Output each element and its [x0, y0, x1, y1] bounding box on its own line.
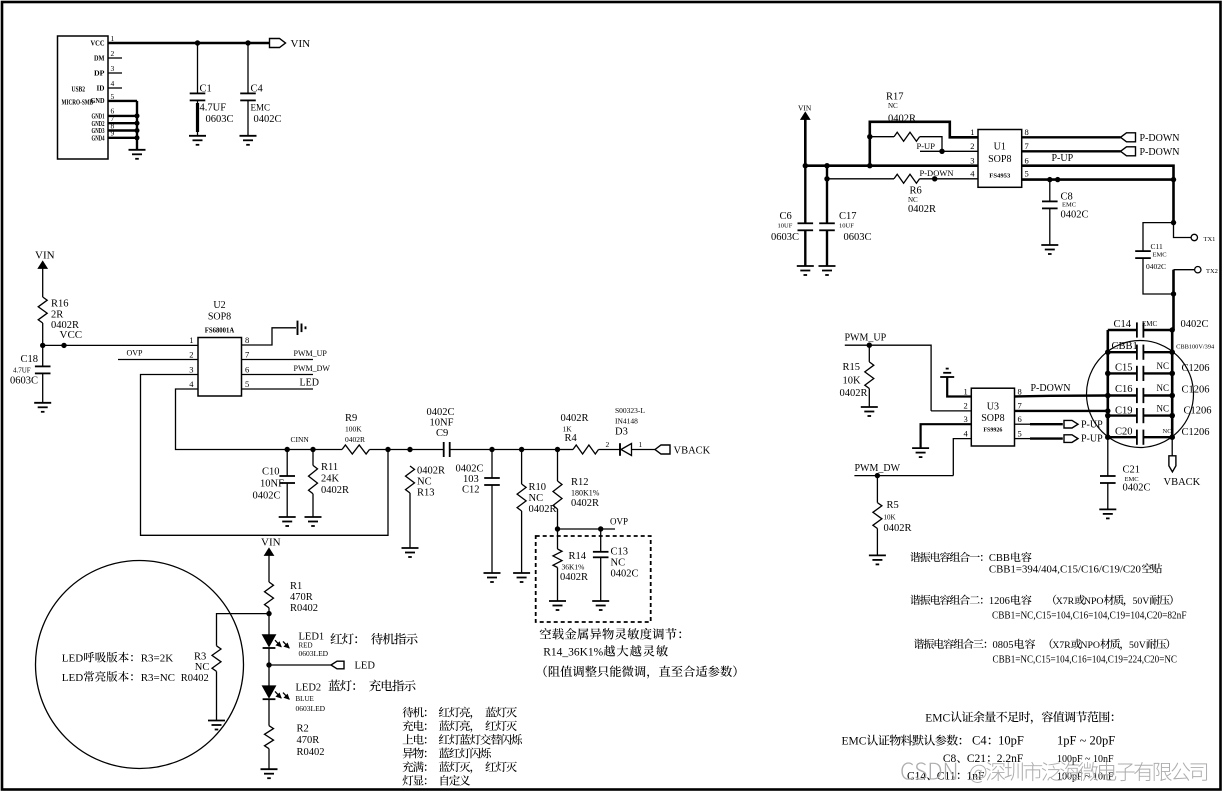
op-amp U2 SOP8 FS68001A body	[198, 338, 242, 397]
svg-text:U3: U3	[987, 401, 999, 412]
wire U2 pin8 to ground	[242, 328, 297, 345]
svg-text:R15: R15	[843, 362, 861, 373]
node R12/R4 junction	[555, 447, 560, 452]
svg-text:470R: 470R	[297, 735, 320, 746]
resistor R2 470R R0402	[265, 726, 274, 749]
svg-text:P-DOWN: P-DOWN	[1140, 147, 1180, 158]
svg-text:0402R: 0402R	[561, 413, 589, 424]
svg-text:NC: NC	[888, 102, 898, 110]
svg-text:P-UP: P-UP	[1052, 153, 1074, 164]
ground below C8	[1041, 244, 1058, 246]
node junction C1 on VCC	[195, 40, 200, 45]
node between LEDs	[266, 662, 271, 667]
svg-text:CBB1=NC,C15=104,C16=104,C19=22: CBB1=NC,C15=104,C16=104,C19=224,C20=NC	[993, 654, 1178, 665]
svg-text:C21: C21	[1123, 465, 1141, 476]
wire to LED port	[269, 664, 331, 666]
svg-text:LED: LED	[355, 661, 376, 672]
svg-text:R3=NC: R3=NC	[141, 672, 175, 684]
capacitor C10 10NF 0402C	[286, 450, 288, 477]
svg-text:C4: C4	[251, 84, 264, 95]
svg-text:SOP8: SOP8	[208, 312, 231, 323]
ground below R10	[513, 572, 530, 574]
svg-text:R0402: R0402	[181, 673, 209, 684]
wire VIN to R16	[42, 268, 44, 297]
svg-text:VBACK: VBACK	[674, 446, 711, 457]
LED state list	[403, 707, 517, 719]
svg-text:7: 7	[245, 349, 249, 359]
pad TX2	[1195, 267, 1201, 273]
svg-text:8: 8	[1025, 127, 1029, 137]
thick loop wire to U1 pin1	[870, 122, 978, 166]
port VIN top	[270, 39, 286, 48]
ground below C18	[34, 402, 51, 404]
resistor R17 NC 0402R	[870, 136, 894, 138]
svg-text:R14_36K1%: R14_36K1%	[543, 647, 603, 659]
svg-text:0603LED: 0603LED	[299, 649, 329, 658]
svg-text:P-UP: P-UP	[1081, 434, 1103, 445]
svg-text:0402C: 0402C	[1146, 262, 1166, 271]
svg-text:C1206: C1206	[1182, 427, 1210, 438]
node after R9 (U2 pin3 feedback)	[385, 447, 390, 452]
svg-text:6: 6	[245, 364, 249, 374]
svg-text:0603C: 0603C	[206, 114, 234, 125]
svg-text:10UF: 10UF	[778, 223, 793, 230]
svg-text:4.7UF: 4.7UF	[13, 366, 31, 374]
resistor R4 1K 0402R	[558, 449, 574, 451]
U3 pin1 to inverted ground	[947, 377, 971, 397]
svg-text:IN4148: IN4148	[615, 417, 638, 426]
capacitor C14 row	[1108, 329, 1137, 331]
svg-text:C12: C12	[462, 485, 480, 496]
resistor R6 NC 0402R	[894, 174, 920, 183]
wire D3 to VBACK	[632, 449, 656, 451]
capacitor C1 4.7UF 0603C	[197, 43, 199, 93]
U3 pin4 to PWM_DW	[953, 439, 971, 476]
svg-text:D3: D3	[615, 427, 628, 438]
LED1 RED 0603LED	[268, 614, 270, 635]
resonant cap combo 1	[910, 552, 982, 562]
svg-text:U2: U2	[213, 300, 225, 311]
svg-text:C15: C15	[1115, 363, 1133, 374]
svg-text:R6: R6	[910, 186, 922, 197]
svg-text:R4: R4	[565, 433, 578, 444]
svg-text:0402C: 0402C	[611, 569, 639, 580]
svg-text:NC: NC	[1157, 361, 1170, 371]
node C12 junction	[489, 447, 494, 452]
U3 pin3 to ground	[921, 424, 972, 448]
svg-text:0402C: 0402C	[427, 407, 455, 418]
wire to TX1 pad	[1174, 223, 1192, 238]
ground below C17	[819, 265, 836, 267]
node R17 to pin2	[939, 149, 944, 154]
svg-text:100pF ~ 10nF: 100pF ~ 10nF	[1057, 754, 1114, 765]
svg-text:C1: C1	[200, 84, 212, 95]
svg-text:CBB100V/394: CBB100V/394	[1176, 344, 1214, 350]
svg-text:VCC: VCC	[91, 40, 105, 48]
svg-text:FS68001A: FS68001A	[205, 327, 235, 335]
svg-text:FS4953: FS4953	[989, 172, 1011, 179]
svg-text:R3=2K: R3=2K	[141, 653, 174, 665]
svg-text:R12: R12	[571, 477, 589, 488]
resistor R13 NC 0402R	[406, 466, 415, 493]
svg-text:50V: 50V	[1133, 596, 1150, 607]
foreign object sensitivity note line1	[540, 628, 681, 640]
node junction C4 on VCC	[245, 40, 250, 45]
wire USB GND bundle	[108, 100, 137, 102]
wire C17 to R6 pin4	[824, 176, 829, 181]
svg-text:0603C: 0603C	[10, 375, 38, 386]
resistor R10 NC 0402R	[521, 450, 523, 485]
svg-text:CINN: CINN	[291, 435, 310, 444]
capacitor C8 EMC 0402C	[1049, 180, 1051, 202]
svg-text:4.7UF: 4.7UF	[200, 103, 227, 114]
svg-text:C1206: C1206	[1182, 363, 1210, 374]
resistor R15 10K 0402R	[868, 345, 870, 362]
resistor R5 10K 0402R	[876, 476, 878, 503]
svg-text:NC: NC	[195, 662, 210, 673]
svg-text:PWM_DW: PWM_DW	[855, 463, 901, 474]
svg-text:0402C: 0402C	[456, 464, 484, 475]
svg-text:C4: C4	[972, 734, 987, 748]
svg-text:1: 1	[970, 127, 974, 137]
svg-text:R2: R2	[297, 724, 309, 735]
svg-text:3: 3	[111, 64, 115, 73]
node R11 junction	[310, 447, 315, 452]
svg-text:100K: 100K	[345, 425, 362, 434]
svg-text:C16: C16	[1115, 384, 1133, 395]
svg-text:ID: ID	[97, 85, 105, 93]
svg-text:VIN: VIN	[35, 250, 55, 262]
svg-text:10K: 10K	[843, 375, 862, 386]
svg-text:0603C: 0603C	[771, 232, 799, 243]
svg-text:LED: LED	[300, 378, 319, 389]
svg-text:GND2: GND2	[92, 121, 105, 128]
svg-text:CBB1=394/404,C15/C16/C19/C20: CBB1=394/404,C15/C16/C19/C20	[989, 565, 1141, 576]
svg-text:C10: C10	[262, 466, 280, 477]
svg-text:R16: R16	[51, 299, 69, 310]
resistor R16 2R 0402R	[38, 297, 47, 323]
cap bank right bus	[1171, 330, 1174, 437]
svg-text:X7R: X7R	[1052, 640, 1071, 651]
svg-text:2: 2	[964, 401, 968, 411]
svg-text:103: 103	[463, 474, 479, 485]
svg-text:2: 2	[606, 440, 610, 449]
svg-text:TX2: TX2	[1206, 268, 1218, 275]
resistor R11 24K 0402R	[312, 450, 314, 466]
svg-text:NC: NC	[417, 477, 432, 488]
svg-text:VIN: VIN	[261, 537, 281, 549]
svg-text:10UF: 10UF	[839, 223, 854, 230]
svg-text:DP: DP	[94, 70, 105, 78]
svg-text:P-DOWN: P-DOWN	[1140, 133, 1180, 144]
ground below C10	[279, 516, 296, 518]
svg-text:5: 5	[1025, 169, 1029, 179]
svg-text:NC: NC	[1163, 428, 1172, 435]
svg-text:3: 3	[189, 364, 193, 374]
svg-text:P-DOWN: P-DOWN	[920, 168, 954, 178]
svg-text:50V: 50V	[1129, 640, 1146, 651]
wire U1 pin7 to P-DOWN port	[1022, 150, 1121, 152]
svg-text:VCC: VCC	[60, 329, 83, 341]
wire C9 to R4 node	[450, 449, 558, 451]
wire CINN to R9	[287, 449, 342, 451]
capacitor C9 10NF 0402C series	[443, 442, 445, 457]
capacitor C6 10UF 0603C	[804, 166, 806, 224]
svg-text:LED: LED	[62, 672, 83, 684]
svg-text:36K1%: 36K1%	[562, 562, 585, 571]
ground below R2	[261, 768, 278, 770]
svg-text:R9: R9	[345, 413, 357, 424]
svg-text:1: 1	[964, 386, 968, 396]
wire pin3 bus top right	[805, 164, 978, 167]
svg-text:PWM_DW: PWM_DW	[294, 364, 331, 373]
svg-text:U1: U1	[994, 141, 1006, 152]
svg-text:NPO: NPO	[1084, 596, 1104, 607]
port VBACK mid	[655, 445, 670, 454]
svg-text:VIN: VIN	[291, 38, 311, 50]
wire U1 pin6 right and down	[1022, 166, 1174, 223]
ground below R5	[869, 554, 886, 556]
node TX1 branch	[1171, 220, 1176, 225]
wire R4 to D3	[599, 449, 620, 451]
svg-text:CBB1=NC,C15=104,C16=104,C19=10: CBB1=NC,C15=104,C16=104,C19=104,C20=82nF	[992, 611, 1187, 622]
svg-text:C11: C11	[1151, 242, 1163, 251]
svg-text:2: 2	[111, 49, 115, 58]
wire U3 pin5 to P-UP port	[1015, 438, 1031, 440]
resistor R12 180K1% 0402R	[557, 450, 559, 482]
wire U1 pin5	[1022, 178, 1174, 181]
ground below R3	[208, 720, 225, 722]
node R10 junction	[519, 447, 524, 452]
svg-text:6: 6	[1025, 156, 1029, 166]
svg-text:GND1: GND1	[92, 114, 105, 121]
svg-text:EMC: EMC	[1153, 252, 1167, 259]
svg-text:DM: DM	[94, 55, 105, 63]
ground below R11	[305, 516, 322, 518]
svg-text:0402R: 0402R	[908, 204, 936, 215]
svg-text:1pF ~ 20pF: 1pF ~ 20pF	[1057, 734, 1115, 748]
svg-text:0402R: 0402R	[840, 388, 868, 399]
cap bank left bus	[1107, 330, 1110, 437]
svg-text:P-DOWN: P-DOWN	[1031, 383, 1071, 394]
wire U2 pin5 LED	[242, 388, 314, 390]
foreign object sensitivity note line3	[543, 666, 736, 679]
svg-text:0402R: 0402R	[884, 523, 912, 534]
wire R9 to C9	[370, 449, 444, 451]
capacitor C13 NC 0402C	[600, 529, 602, 552]
capacitor C20 row	[1108, 436, 1137, 438]
svg-text:X7R: X7R	[1056, 596, 1075, 607]
wire U2 pin3 loop down	[141, 375, 389, 536]
capacitor CBB1 row	[1108, 351, 1137, 353]
resistor R3 NC R0402	[212, 646, 221, 672]
resistor R9 100K 0402R	[342, 445, 370, 454]
svg-text:0402R: 0402R	[571, 498, 599, 509]
svg-text:SOP8: SOP8	[981, 413, 1004, 424]
ground below C6	[797, 265, 814, 267]
label blue LED charging	[328, 680, 415, 692]
wire VCC to U2 pin1	[43, 344, 198, 346]
svg-text:470R: 470R	[290, 592, 313, 603]
svg-text:USB2: USB2	[72, 86, 86, 94]
wire U1 pin8 to P-DOWN port	[1022, 136, 1121, 138]
ground below C13	[592, 600, 609, 602]
svg-text:P-UP: P-UP	[917, 141, 936, 151]
node R17 loop junctions	[867, 134, 872, 139]
svg-text:0402R: 0402R	[417, 466, 445, 477]
resistor R1 470R R0402	[265, 582, 274, 608]
svg-text:GND3: GND3	[92, 128, 105, 135]
svg-text:R11: R11	[321, 462, 338, 473]
svg-text:R3: R3	[194, 651, 206, 662]
svg-text:24K: 24K	[321, 474, 340, 485]
svg-text:CBB1: CBB1	[1112, 341, 1138, 352]
ground below C4	[240, 135, 257, 137]
svg-text:0805: 0805	[993, 640, 1014, 651]
svg-text:GND4: GND4	[92, 135, 105, 142]
dashed adjustment box	[536, 536, 651, 622]
capacitor C17 10UF 0603C	[826, 166, 828, 224]
svg-text:8: 8	[1018, 386, 1022, 396]
svg-text:0603C: 0603C	[844, 232, 872, 243]
svg-text:4: 4	[964, 428, 969, 438]
svg-text:0402C: 0402C	[253, 491, 281, 502]
capacitor C18 4.7UF 0603C	[42, 345, 44, 366]
big annotation circle	[36, 561, 244, 769]
capacitor C4 EMC 0402C	[247, 43, 249, 93]
svg-text:10NF: 10NF	[430, 417, 454, 428]
svg-text:3: 3	[970, 156, 974, 166]
svg-text:R0402: R0402	[290, 603, 318, 614]
ground sideways at U2 pin8	[297, 321, 299, 335]
svg-text:PWM_UP: PWM_UP	[294, 349, 328, 358]
svg-text:0402R: 0402R	[321, 485, 349, 496]
svg-text:NC: NC	[1157, 383, 1170, 393]
op-amp U3 SOP8 FS9926 body	[971, 388, 1014, 446]
svg-text:EMC: EMC	[1142, 320, 1158, 328]
svg-text:S00323-L: S00323-L	[615, 406, 645, 415]
capacitor C19 row	[1108, 414, 1137, 416]
OVP node line	[558, 528, 616, 530]
wire U2 pin6 PWM_DW	[242, 374, 314, 376]
svg-text:5: 5	[245, 379, 249, 389]
svg-text:C13: C13	[611, 547, 629, 558]
svg-text:SOP8: SOP8	[988, 154, 1011, 165]
svg-text:LED: LED	[62, 653, 83, 665]
svg-text:R1: R1	[290, 581, 302, 592]
svg-text:1: 1	[639, 440, 643, 449]
svg-text:PWM_UP: PWM_UP	[845, 332, 887, 343]
wire U3 pin6 to P-UP port	[1015, 423, 1031, 425]
wire to R3	[217, 614, 270, 646]
wire U3 pin2	[931, 410, 971, 412]
capacitor C21 EMC 0402C	[1107, 437, 1109, 476]
svg-text:R0402: R0402	[297, 747, 325, 758]
svg-text:VIN: VIN	[798, 104, 812, 113]
svg-text:GND: GND	[91, 97, 105, 105]
svg-text:2.2nF: 2.2nF	[997, 753, 1024, 765]
node R1/LED1/R3	[266, 611, 271, 616]
svg-text:C21: C21	[967, 753, 986, 765]
svg-text:0603LED: 0603LED	[296, 704, 326, 713]
svg-text:FS9926: FS9926	[983, 427, 1003, 434]
svg-text:8: 8	[245, 335, 249, 345]
port LED	[331, 661, 344, 669]
svg-text:NC: NC	[1157, 404, 1170, 414]
resonant cap combo 2	[910, 595, 982, 605]
wire U3 pin7 to bus	[1015, 410, 1108, 412]
svg-text:OVP: OVP	[127, 349, 144, 358]
resonant cap combo 3	[914, 639, 986, 649]
svg-text:C1206: C1206	[1184, 405, 1212, 416]
svg-text:6: 6	[1018, 414, 1022, 424]
CSDN watermark	[901, 762, 956, 779]
svg-text:R5: R5	[887, 500, 899, 511]
svg-text:7: 7	[1018, 401, 1022, 411]
capacitor C15 row	[1108, 372, 1137, 374]
ground below C1	[189, 135, 206, 137]
svg-text:VBACK: VBACK	[1164, 477, 1201, 488]
svg-text:2: 2	[970, 141, 974, 151]
USB connector USB2 MICRO-SMD body	[58, 36, 109, 159]
ground below C12	[484, 572, 501, 574]
svg-text:2R: 2R	[51, 310, 63, 321]
wire TX2 into right bus	[1174, 269, 1195, 271]
op-amp U1 SOP8 FS4953 body	[978, 130, 1022, 188]
svg-text:NC: NC	[529, 493, 544, 504]
svg-text:2: 2	[189, 349, 193, 359]
svg-text:R13: R13	[417, 488, 435, 499]
ground below R14	[549, 600, 566, 602]
svg-text:NC: NC	[611, 558, 626, 569]
svg-text:BLUE: BLUE	[296, 695, 314, 703]
svg-text:10NF: 10NF	[260, 479, 284, 490]
diode D3 1N4148	[619, 443, 621, 456]
svg-text:NPO: NPO	[1080, 640, 1100, 651]
svg-text:LED2: LED2	[296, 683, 322, 694]
svg-text:3: 3	[964, 414, 968, 424]
svg-text:1206: 1206	[989, 596, 1010, 607]
svg-text:7: 7	[1025, 141, 1029, 151]
wire U2 pin4 to CINN	[176, 389, 288, 450]
wire R16 to VCC node	[42, 323, 44, 345]
resistor R14 36K1% 0402R	[557, 529, 559, 549]
svg-text:P-UP: P-UP	[1081, 419, 1103, 430]
node R13 junction	[407, 447, 412, 452]
svg-text:C14: C14	[1114, 319, 1132, 330]
svg-text:EMC: EMC	[251, 103, 271, 113]
svg-text:EMC: EMC	[842, 736, 867, 748]
svg-text:R14: R14	[569, 551, 587, 562]
capacitor C16 row	[1108, 394, 1137, 396]
svg-text:0402R: 0402R	[560, 572, 588, 583]
svg-text:5: 5	[111, 92, 115, 101]
svg-text:C20: C20	[1115, 427, 1133, 438]
capacitor C11 EMC 0402C	[1143, 223, 1174, 252]
svg-text:EMC: EMC	[1062, 202, 1076, 209]
ground below R15	[861, 406, 878, 408]
node VIN/C6	[803, 163, 808, 168]
svg-text:C1206: C1206	[1182, 385, 1210, 396]
svg-text:0402C: 0402C	[1181, 319, 1209, 330]
wire U2 pin7 PWM_UP	[242, 359, 314, 361]
port VBACK bottom	[1171, 437, 1173, 456]
svg-text:10pF: 10pF	[998, 734, 1024, 748]
svg-text:OVP: OVP	[610, 516, 628, 526]
ground below USB	[129, 149, 146, 151]
pad TX1	[1191, 234, 1197, 240]
svg-text:0402R: 0402R	[888, 114, 916, 125]
